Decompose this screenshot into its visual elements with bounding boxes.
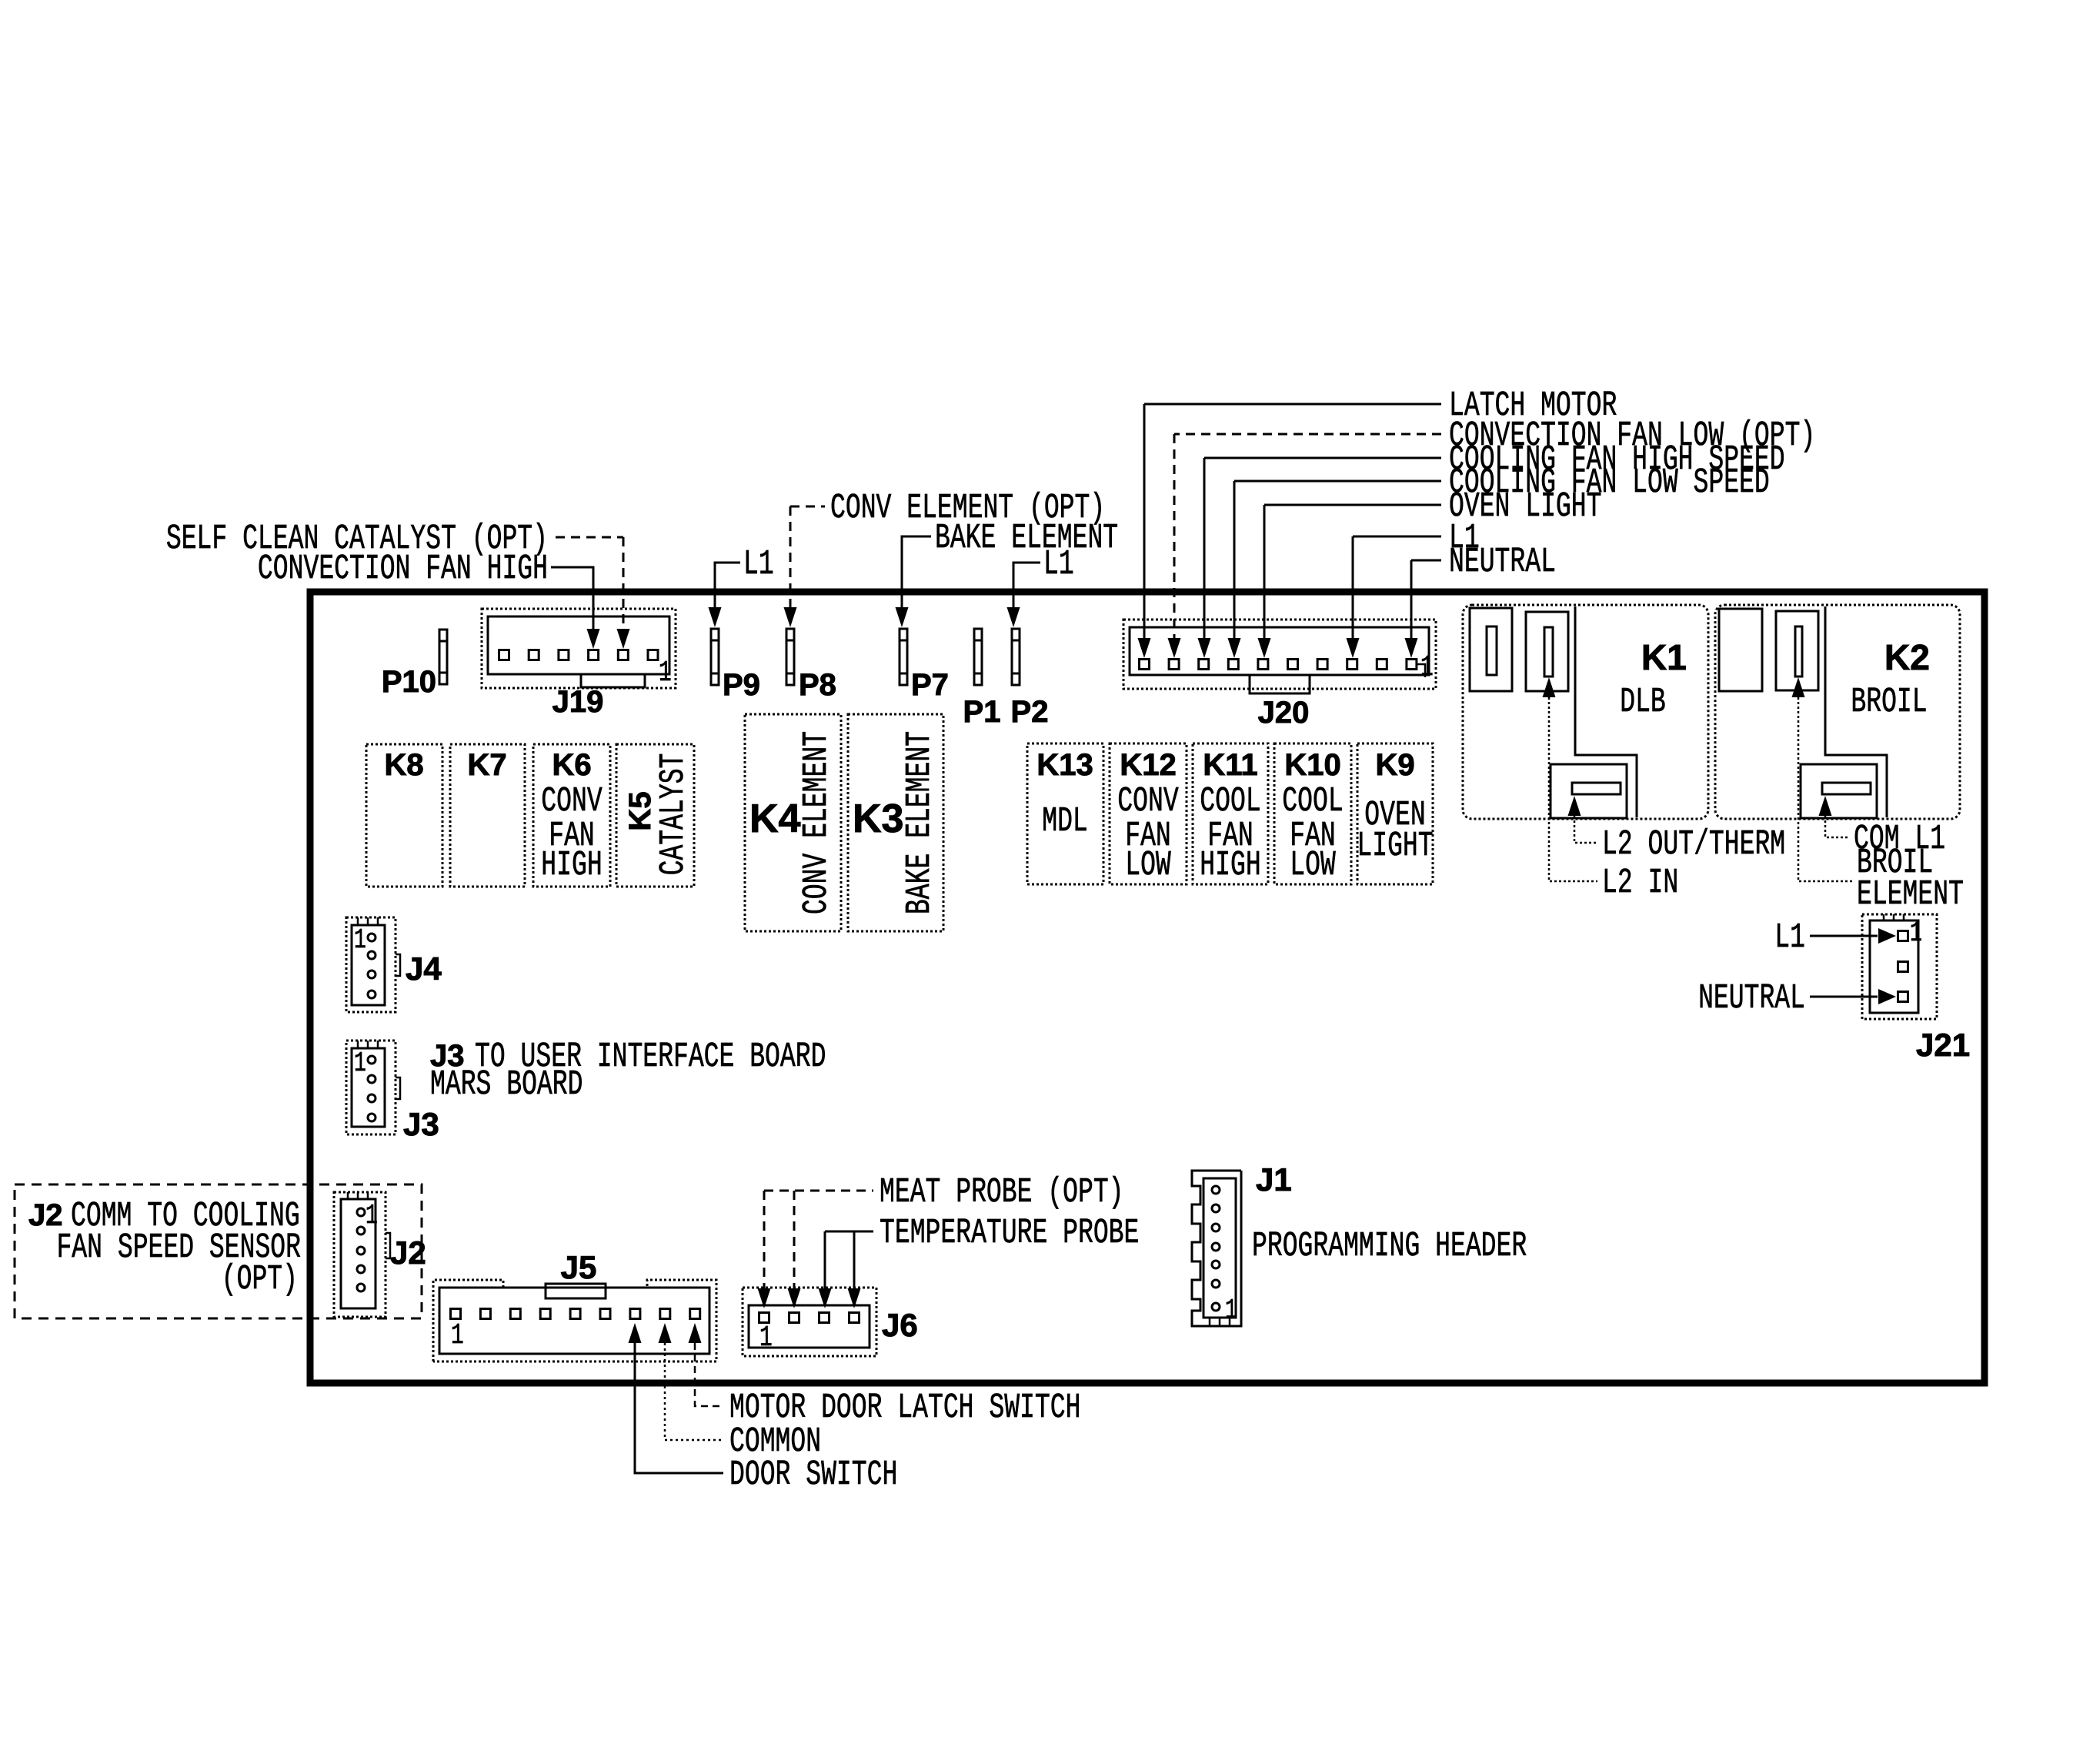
- wire leader L1 to J20: [1347, 536, 1442, 658]
- label J1: [1256, 1161, 1292, 1198]
- label J6: [882, 1307, 918, 1343]
- relay K2 body: [1715, 605, 1960, 819]
- label MOTOR DOOR LATCH SWITCH: [729, 1388, 1080, 1427]
- svg-text:P1: P1: [963, 695, 1001, 729]
- wire leader L2 IN (K1 pin): [1543, 677, 1598, 881]
- wire leader LATCH MOTOR to J20: [1138, 404, 1442, 658]
- label CONVECTION FAN HIGH: [258, 549, 548, 588]
- label L2 OUT/THERM: [1602, 824, 1785, 864]
- label K3 BAKE ELEMENT: [900, 731, 939, 914]
- relay K13: [1027, 743, 1103, 884]
- label NEUTRAL (J21): [1698, 978, 1805, 1017]
- svg-text:K10: K10: [1284, 748, 1340, 782]
- wire leader to P7: [896, 536, 932, 627]
- svg-text:BAKE ELEMENT: BAKE ELEMENT: [900, 731, 939, 914]
- relay K10: [1274, 743, 1351, 884]
- label J19: [552, 685, 604, 719]
- relay K5: [616, 744, 694, 887]
- relay K12: [1110, 743, 1187, 884]
- svg-text:J3: J3: [403, 1106, 439, 1142]
- svg-text:K6: K6: [552, 748, 591, 782]
- label K12: [1120, 748, 1176, 782]
- svg-text:J19: J19: [552, 685, 604, 719]
- svg-text:1: 1: [1225, 1296, 1237, 1327]
- svg-text:J2: J2: [390, 1234, 426, 1271]
- wire leader COM L1 (K2 pin): [1819, 796, 1850, 837]
- svg-text:1: 1: [354, 1049, 366, 1080]
- wire leader to P2: [1007, 563, 1041, 627]
- wire leader to J19 pin4: [551, 567, 600, 649]
- svg-text:1: 1: [1420, 651, 1434, 684]
- label J3 TO USER INTERFACE BOARD: [430, 1037, 826, 1076]
- svg-text:CONV: CONV: [541, 781, 603, 820]
- svg-text:1: 1: [1910, 919, 1922, 950]
- svg-text:DOOR SWITCH: DOOR SWITCH: [729, 1455, 897, 1494]
- connector J1 body and pins: [1192, 1171, 1241, 1326]
- svg-text:K4: K4: [749, 797, 801, 841]
- svg-text:1: 1: [759, 1321, 773, 1355]
- relay K11: [1193, 743, 1268, 884]
- label NEUTRAL: [1449, 542, 1556, 581]
- wire leader COMMON (J5 pin8): [659, 1323, 724, 1440]
- connector J6 body and pins: [743, 1288, 876, 1356]
- label OVEN LIGHT: [1449, 486, 1601, 526]
- wire dashed leader to P8: [784, 506, 826, 627]
- svg-text:NEUTRAL: NEUTRAL: [1449, 542, 1556, 581]
- label COM L1: [1854, 819, 1945, 858]
- label COMMON: [729, 1422, 821, 1461]
- connector J19 body and pins: [482, 609, 676, 690]
- wire leader CONVECTION FAN LOW (OPT) to J20: [1168, 434, 1442, 658]
- svg-text:K9: K9: [1375, 748, 1414, 782]
- wire leader BROIL ELEMENT (K2 pin): [1792, 677, 1853, 881]
- label K9: [1375, 748, 1414, 782]
- svg-text:1: 1: [659, 656, 672, 690]
- header P2: [1012, 629, 1020, 685]
- wire leader to P9: [709, 563, 741, 627]
- label FAN SPEED SENSOR: [56, 1228, 301, 1267]
- relay K6: [533, 744, 610, 887]
- label BROIL ELEMENT: [1857, 843, 1964, 914]
- label BAKE ELEMENT: [935, 518, 1118, 557]
- svg-text:NEUTRAL: NEUTRAL: [1698, 978, 1805, 1017]
- label CONVECTION FAN LOW (OPT): [1449, 416, 1815, 455]
- label DOOR SWITCH: [729, 1455, 897, 1494]
- relay K8: [366, 744, 442, 887]
- svg-text:HIGH: HIGH: [541, 845, 602, 884]
- svg-text:ELEMENT: ELEMENT: [1857, 874, 1964, 914]
- svg-text:P2: P2: [1011, 695, 1049, 729]
- connector J2 body and pins: [334, 1192, 390, 1317]
- svg-text:L1: L1: [1774, 917, 1805, 957]
- label J20: [1258, 696, 1310, 730]
- label SELF CLEAN CATALYST (OPT): [166, 519, 548, 558]
- svg-text:LOW: LOW: [1290, 845, 1336, 884]
- svg-text:K2: K2: [1884, 637, 1930, 677]
- svg-text:J1: J1: [1256, 1161, 1292, 1198]
- svg-text:COOL: COOL: [1282, 781, 1343, 820]
- label COOLING FAN LOW SPEED: [1449, 463, 1770, 502]
- connector J20 body and pins: [1123, 620, 1436, 693]
- label K7: [467, 748, 506, 782]
- relay K4: [745, 714, 841, 931]
- J2 option dashed box: [15, 1184, 422, 1318]
- wire leader NEUTRAL to J20: [1405, 560, 1442, 658]
- label K6: [552, 748, 591, 782]
- wire leader TEMPERATURE PROBE (J6 pins 3-4): [819, 1231, 874, 1308]
- svg-text:CONVECTION FAN HIGH: CONVECTION FAN HIGH: [258, 549, 548, 588]
- svg-text:J21: J21: [1916, 1027, 1970, 1063]
- relay K1 body: [1463, 605, 1708, 819]
- wire dashed leader to J19 pin5: [556, 537, 630, 649]
- label MARS BOARD: [430, 1064, 583, 1104]
- wire leader COOLING FAN LOW SPEED to J20: [1228, 481, 1442, 658]
- label L2 IN: [1602, 863, 1678, 902]
- svg-text:L2 OUT/THERM: L2 OUT/THERM: [1602, 824, 1785, 864]
- svg-text:MARS BOARD: MARS BOARD: [430, 1064, 583, 1104]
- wire leader DOOR SWITCH (J5 pin7): [629, 1323, 724, 1473]
- svg-text:CONV: CONV: [1117, 781, 1179, 820]
- label P8: [799, 668, 836, 702]
- label K3: [853, 797, 903, 841]
- svg-text:BAKE ELEMENT: BAKE ELEMENT: [935, 518, 1118, 557]
- label K1 DLB: [1620, 682, 1666, 721]
- relay K9: [1357, 743, 1433, 884]
- svg-text:P9: P9: [723, 668, 760, 702]
- svg-text:J6: J6: [882, 1307, 918, 1343]
- label P7: [911, 668, 949, 702]
- label LATCH MOTOR: [1449, 386, 1617, 425]
- label P10: [382, 665, 436, 699]
- svg-text:CATALYST: CATALYST: [653, 753, 693, 876]
- label K1: [1641, 637, 1687, 677]
- svg-text:J5: J5: [561, 1249, 597, 1285]
- label P1: [963, 695, 1001, 729]
- relay K3: [848, 714, 943, 931]
- label J4: [406, 950, 442, 987]
- label PROGRAMMING HEADER: [1252, 1226, 1527, 1265]
- wire leader COOLING FAN HIGH SPEED to J20: [1198, 458, 1442, 658]
- label K11 COOL FAN HIGH: [1200, 781, 1260, 884]
- label K10 COOL FAN LOW: [1282, 781, 1343, 884]
- svg-text:LIGHT: LIGHT: [1357, 826, 1433, 865]
- label P2: [1011, 695, 1049, 729]
- svg-text:K5: K5: [623, 791, 657, 830]
- svg-text:P7: P7: [911, 668, 949, 702]
- label J2 COMM TO COOLING: [28, 1196, 300, 1235]
- svg-text:K3: K3: [853, 797, 903, 841]
- svg-text:DLB: DLB: [1620, 682, 1666, 721]
- wire leader L1 to J21 pin1: [1810, 928, 1896, 944]
- svg-text:K13: K13: [1036, 748, 1093, 782]
- svg-text:K11: K11: [1203, 748, 1257, 782]
- svg-text:MEAT PROBE (OPT): MEAT PROBE (OPT): [880, 1172, 1124, 1211]
- header P1: [974, 629, 982, 685]
- svg-text:CONV ELEMENT: CONV ELEMENT: [796, 731, 836, 914]
- svg-text:J2: J2: [28, 1198, 63, 1232]
- relay K7: [450, 744, 525, 887]
- label (OPT): [222, 1259, 298, 1298]
- label K5 CATALYST: [653, 753, 693, 876]
- svg-text:P8: P8: [799, 668, 836, 702]
- svg-text:P10: P10: [382, 665, 436, 699]
- label K2: [1884, 637, 1930, 677]
- svg-text:1: 1: [366, 1201, 378, 1232]
- label K13 MDL: [1042, 801, 1088, 840]
- label K4 CONV ELEMENT: [796, 731, 836, 914]
- svg-text:J20: J20: [1258, 696, 1310, 730]
- connector J3 body and pins: [346, 1041, 400, 1134]
- header P8: [786, 629, 794, 685]
- svg-text:L1: L1: [743, 544, 774, 583]
- label K13: [1036, 748, 1093, 782]
- label K4: [749, 797, 801, 841]
- svg-text:J4: J4: [406, 950, 442, 987]
- label K11: [1203, 748, 1257, 782]
- header P10: [439, 630, 447, 684]
- label L1 (P9): [743, 544, 774, 583]
- svg-text:COOL: COOL: [1200, 781, 1260, 820]
- label TEMPERATURE PROBE: [880, 1213, 1139, 1252]
- svg-text:1: 1: [451, 1319, 464, 1352]
- label L1 (P2): [1043, 544, 1074, 583]
- wire leader MOTOR DOOR LATCH SWITCH (J5 pin9): [689, 1323, 724, 1406]
- label J3 designator: [403, 1106, 439, 1142]
- label J21: [1916, 1027, 1970, 1063]
- header P9: [711, 629, 719, 685]
- connector J5 body and pins: [433, 1280, 716, 1361]
- wire leader OVEN LIGHT to J20: [1258, 505, 1442, 658]
- connector J4 body and pins: [346, 917, 400, 1012]
- svg-text:LOW: LOW: [1125, 845, 1171, 884]
- label MEAT PROBE (OPT): [880, 1172, 1124, 1211]
- label K9 OVEN LIGHT: [1357, 795, 1433, 865]
- label K6 CONV FAN HIGH: [541, 781, 603, 884]
- svg-text:(OPT): (OPT): [222, 1259, 298, 1298]
- svg-text:TEMPERATURE PROBE: TEMPERATURE PROBE: [880, 1213, 1139, 1252]
- label COOLING FAN HIGH SPEED: [1449, 439, 1785, 479]
- svg-text:K1: K1: [1641, 637, 1687, 677]
- label L1 (J21): [1774, 917, 1805, 957]
- label K12 CONV FAN LOW: [1117, 781, 1179, 884]
- label CONV ELEMENT (OPT): [830, 488, 1105, 527]
- wire dashed leader MEAT PROBE (J6 pins 1-2): [758, 1191, 874, 1308]
- svg-text:1: 1: [354, 926, 366, 957]
- wire leader NEUTRAL to J21 pin3: [1810, 989, 1896, 1004]
- svg-text:HIGH: HIGH: [1200, 845, 1260, 884]
- svg-text:K8: K8: [384, 748, 423, 782]
- svg-text:BROIL: BROIL: [1851, 682, 1927, 721]
- label L1: [1449, 518, 1480, 557]
- label K5: [623, 791, 657, 830]
- svg-text:L2 IN: L2 IN: [1602, 863, 1678, 902]
- label J2 designator: [390, 1234, 426, 1271]
- label K2 BROIL: [1851, 682, 1927, 721]
- svg-text:MDL: MDL: [1042, 801, 1088, 840]
- connector J21 body and pins: [1862, 914, 1937, 1019]
- label K8: [384, 748, 423, 782]
- label J5: [561, 1249, 597, 1285]
- svg-text:K7: K7: [467, 748, 506, 782]
- svg-text:PROGRAMMING HEADER: PROGRAMMING HEADER: [1252, 1226, 1527, 1265]
- PCB board outline: [310, 592, 1985, 1383]
- wire leader L2 OUT/THERM (K1 pin): [1568, 796, 1598, 843]
- svg-text:L1: L1: [1043, 544, 1074, 583]
- svg-text:K12: K12: [1120, 748, 1176, 782]
- label K10: [1284, 748, 1340, 782]
- header P7: [900, 629, 907, 685]
- label P9: [723, 668, 760, 702]
